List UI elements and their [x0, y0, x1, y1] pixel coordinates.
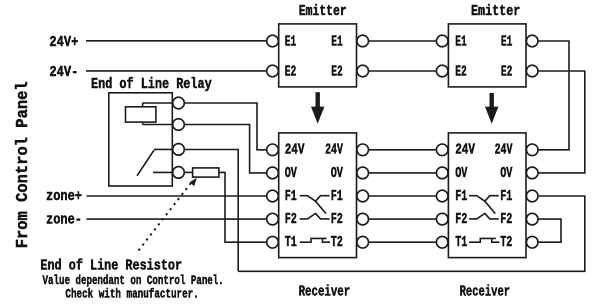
receiver U4 pin labels 24V 24V — [455, 143, 512, 159]
emitter U3 box — [448, 24, 526, 87]
wire receiver U4 F2 to T2 jumper — [538, 219, 561, 242]
receiver U4 pin T2 right — [526, 236, 538, 248]
wire relay pin3 to bottom bus — [184, 150, 238, 272]
label End of Line Resistor — [40, 258, 182, 274]
relay terminal 2 — [173, 119, 185, 131]
emitter U3 pin E2 left — [436, 65, 448, 77]
label Receiver U4 — [460, 284, 511, 300]
relay terminal 1 — [173, 97, 185, 109]
wire 24V+ to emitter1 E1 — [86, 40, 267, 42]
svg-text:E1: E1 — [455, 35, 467, 51]
emitter U3 pin labels E1 E1 — [455, 35, 512, 51]
receiver U2 contact F1 — [300, 196, 330, 202]
emitter U3 pin E2 right — [526, 65, 538, 77]
receiver U2 pin F2 right — [357, 213, 369, 225]
relay terminal 3 — [173, 144, 185, 156]
emitter U3 pin E1 left — [436, 35, 448, 47]
receiver U2 pin labels F2 F2 — [285, 212, 343, 228]
callout dotted line to resistor R1 — [139, 182, 192, 250]
svg-text:24V: 24V — [455, 143, 475, 159]
label 24V+ — [49, 35, 78, 51]
wire relay pin1 to receiver1 24V — [184, 103, 266, 150]
svg-text:F2: F2 — [331, 212, 343, 228]
receiver U4 box — [448, 133, 526, 258]
receiver U4 pin labels F2 F2 — [455, 212, 512, 228]
svg-text:E2: E2 — [285, 65, 297, 81]
svg-text:T1: T1 — [285, 235, 297, 251]
wire receiver1 T2 to receiver2 T1 — [369, 241, 437, 243]
svg-text:24V: 24V — [285, 143, 305, 159]
callout arrowhead at resistor R1 — [190, 178, 197, 186]
emitter U1 pin E2 left — [267, 65, 279, 77]
svg-text:zone-: zone- — [46, 212, 82, 228]
label Emitter U3 — [471, 4, 520, 20]
svg-text:F2: F2 — [285, 212, 297, 228]
svg-text:T1: T1 — [455, 235, 467, 251]
receiver U2 pin F1 left — [267, 190, 279, 202]
wire relay pin4 to resistor R1 — [184, 171, 192, 173]
receiver U2 pin F1 right — [357, 190, 369, 202]
receiver U2 pin labels F1 F1 — [285, 189, 343, 205]
wire relay pin2 to receiver1 0V — [184, 125, 266, 173]
svg-text:OV: OV — [500, 166, 512, 182]
svg-text:From Control Panel: From Control Panel — [14, 81, 33, 248]
wire emitter1 E1 to emitter2 E1 — [369, 40, 437, 42]
svg-text:E2: E2 — [501, 65, 513, 81]
label Emitter U1 — [299, 4, 347, 20]
receiver U4 pin F2 right — [526, 213, 538, 225]
svg-text:F1: F1 — [331, 189, 343, 205]
note Check with manufacturer. — [65, 286, 198, 301]
svg-text:Emitter: Emitter — [299, 4, 347, 20]
receiver U2 pin labels 24V 24V — [285, 143, 343, 159]
receiver U4 pin labels F1 F1 — [455, 189, 512, 205]
svg-text:Receiver: Receiver — [299, 284, 351, 300]
emitter U1 box — [279, 24, 357, 87]
resistor R1 end of line — [193, 168, 219, 177]
receiver U4 pin T1 left — [436, 236, 448, 248]
svg-text:24V: 24V — [495, 143, 513, 159]
receiver U2 contact F2 — [300, 213, 330, 219]
svg-text:E2: E2 — [331, 65, 343, 81]
svg-text:F2: F2 — [455, 212, 467, 228]
receiver U2 pin labels T1 T2 — [285, 235, 343, 251]
receiver U4 contact F2 — [469, 213, 499, 219]
svg-text:F1: F1 — [285, 189, 297, 205]
svg-text:Emitter: Emitter — [471, 4, 520, 20]
receiver U4 pin labels 0V 0V — [455, 166, 512, 182]
svg-text:zone+: zone+ — [46, 189, 82, 205]
svg-text:End of Line Relay: End of Line Relay — [91, 77, 212, 93]
wire receiver1 24V to receiver2 24V — [369, 149, 437, 151]
receiver U2 pin T2 right — [357, 236, 369, 248]
emitter U1 pin E2 right — [357, 65, 369, 77]
svg-text:24V: 24V — [325, 143, 343, 159]
wire receiver1 F2 to receiver2 F2 — [369, 218, 437, 220]
receiver U2 pin 24V left — [267, 144, 279, 156]
wire zone- to receiver1 F2 — [87, 218, 267, 220]
receiver U2 contact blade F1-F2 — [316, 201, 327, 213]
svg-text:Check with manufacturer.: Check with manufacturer. — [65, 286, 198, 301]
svg-text:F1: F1 — [500, 189, 512, 205]
receiver U4 contact blade F1-F2 — [485, 201, 496, 213]
svg-text:24V+: 24V+ — [49, 35, 78, 51]
label 24V- — [49, 65, 78, 81]
relay K1 switch contact lead pin4 — [153, 171, 172, 173]
svg-text:T2: T2 — [500, 235, 512, 251]
svg-text:E2: E2 — [455, 65, 467, 81]
receiver U4 pin labels T1 T2 — [455, 235, 512, 251]
receiver U2 pin 0V right — [357, 167, 369, 179]
relay terminal 4 — [173, 167, 185, 179]
svg-text:OV: OV — [331, 166, 343, 182]
receiver U2 pin T1 left — [267, 236, 279, 248]
receiver U4 pin 0V left — [436, 167, 448, 179]
svg-text:F2: F2 — [500, 212, 512, 228]
svg-text:F1: F1 — [455, 189, 467, 205]
emitter U1 pin labels E2 E2 — [285, 65, 343, 81]
wire receiver1 0V to receiver2 0V — [369, 172, 437, 174]
receiver U4 pin F1 left — [436, 190, 448, 202]
receiver U4 pin F1 right — [526, 190, 538, 202]
label End of Line Relay — [91, 77, 212, 93]
label From Control Panel — [14, 81, 33, 248]
wire receiver1 F1 to receiver2 F1 — [369, 195, 437, 197]
wire bottom bus to receiver2 F1 right — [238, 196, 585, 271]
relay K1 coil — [126, 103, 156, 125]
svg-text:E1: E1 — [331, 35, 343, 51]
arrow emitter U3 to receiver U4 — [485, 93, 498, 124]
relay K1 coil lead pin1 — [143, 102, 173, 104]
wire emitter U3 E2 to receiver U4 0V — [538, 71, 585, 173]
wire 24V- to emitter1 E2 — [86, 70, 267, 72]
svg-text:E1: E1 — [285, 35, 297, 51]
receiver U4 pin 24V left — [436, 144, 448, 156]
wire emitter U3 E1 to receiver U4 24V — [538, 41, 569, 150]
emitter U3 pin E1 right — [526, 35, 538, 47]
receiver U4 contact T1-T2 — [469, 238, 499, 242]
emitter U1 pin E1 left — [267, 35, 279, 47]
label zone- — [46, 212, 82, 228]
svg-text:OV: OV — [285, 166, 297, 182]
emitter U1 pin labels E1 E1 — [285, 35, 343, 51]
receiver U4 pin 0V right — [526, 167, 538, 179]
svg-text:E1: E1 — [501, 35, 513, 51]
svg-text:T2: T2 — [331, 235, 343, 251]
receiver U2 pin 24V right — [357, 144, 369, 156]
label zone+ — [46, 189, 82, 205]
arrow emitter U1 to receiver U2 — [311, 92, 324, 124]
wire zone+ to receiver1 F1 — [87, 195, 267, 197]
receiver U2 pin F2 left — [267, 213, 279, 225]
relay K1 switch blade — [137, 150, 154, 176]
svg-text:24V-: 24V- — [49, 65, 78, 81]
receiver U2 pin labels 0V 0V — [285, 166, 343, 182]
relay K1 coil lead pin2 — [143, 124, 173, 126]
receiver U2 box — [279, 133, 357, 258]
svg-text:Receiver: Receiver — [460, 284, 511, 300]
receiver U2 contact T1-T2 — [300, 238, 330, 242]
relay K1 box — [109, 93, 173, 186]
receiver U4 pin 24V right — [526, 144, 538, 156]
emitter U1 pin E1 right — [357, 35, 369, 47]
receiver U4 contact F1 — [469, 196, 499, 202]
wire resistor R1 to receiver1 T1 — [219, 172, 267, 242]
note Value dependant on Control Panel. — [43, 273, 224, 288]
receiver U4 pin F2 left — [436, 213, 448, 225]
wire emitter1 E2 to emitter2 E2 — [369, 70, 437, 72]
emitter U3 pin labels E2 E2 — [455, 65, 512, 81]
label Receiver U2 — [299, 284, 351, 300]
receiver U2 pin 0V left — [267, 167, 279, 179]
relay K1 switch common lead pin3 — [154, 148, 172, 150]
svg-text:OV: OV — [455, 166, 467, 182]
